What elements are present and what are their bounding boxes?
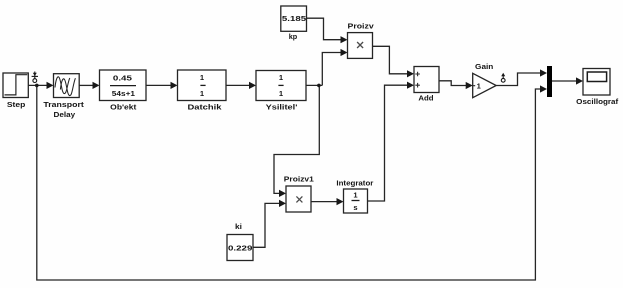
svg-text:Proizv: Proizv bbox=[348, 22, 375, 31]
arrowhead into Mux in2 bbox=[540, 85, 547, 92]
wire Add to Gain bbox=[439, 81, 468, 86]
block kp constant 5.185 bbox=[281, 6, 307, 41]
block Add sum bbox=[414, 67, 439, 103]
arrowhead into Ob'ekt bbox=[93, 82, 100, 89]
svg-text:5.185: 5.185 bbox=[282, 14, 307, 23]
block Proizv multiply bbox=[348, 22, 375, 59]
svg-text:Step: Step bbox=[7, 100, 26, 109]
svg-text:kp: kp bbox=[289, 32, 298, 41]
wire Gain to Mux in1 bbox=[496, 73, 542, 86]
arrowhead into Integrator bbox=[337, 198, 344, 205]
arrowhead into Proizv in2 bbox=[341, 49, 348, 56]
block Step bbox=[3, 73, 28, 109]
block Transport Delay bbox=[43, 74, 84, 119]
wire Ob'ekt to Datchik bbox=[146, 84, 172, 86]
block Datchik transfer function 1/1 bbox=[178, 70, 227, 111]
block Ysilitel' transfer function 1/1 bbox=[256, 71, 306, 112]
svg-text:Integrator: Integrator bbox=[336, 178, 373, 187]
arrowhead into Transport Delay bbox=[47, 82, 54, 89]
svg-text:s: s bbox=[353, 203, 357, 212]
block Ob'ekt transfer function 0.45/(54s+1) bbox=[100, 70, 147, 111]
wire ki to Proizv1 in2 bbox=[253, 203, 281, 247]
arrowhead into Proizv1 in1 bbox=[279, 190, 286, 197]
svg-text:Ysilitel': Ysilitel' bbox=[266, 102, 298, 111]
arrowhead into Proizv1 in2 bbox=[279, 200, 286, 207]
svg-text:Add: Add bbox=[418, 94, 434, 103]
test point symbol after Gain bbox=[501, 73, 505, 82]
test point symbol above Step junction bbox=[32, 72, 38, 83]
wire Proizv to Add in1 bbox=[373, 46, 409, 74]
svg-text:0.229: 0.229 bbox=[228, 243, 252, 252]
arrowhead into Mux in1 bbox=[540, 69, 547, 76]
svg-text:Oscillograf: Oscillograf bbox=[576, 97, 618, 106]
arrowhead into Add in1 bbox=[407, 70, 414, 77]
block ki constant 0.229 bbox=[227, 222, 253, 261]
block Proizv1 multiply bbox=[284, 175, 315, 213]
wire Mux to Oscillograf bbox=[552, 80, 578, 82]
block Mux bbox=[547, 66, 552, 97]
svg-text:Proizv1: Proizv1 bbox=[284, 175, 315, 184]
svg-text:ki: ki bbox=[235, 222, 242, 231]
arrowhead into Gain bbox=[466, 82, 473, 89]
wire Integrator to Add in2 bbox=[368, 85, 410, 201]
arrowhead into Proizv in1 bbox=[341, 36, 348, 43]
wire kp to Proizv in1 bbox=[307, 18, 343, 40]
svg-text:Gain: Gain bbox=[475, 62, 494, 71]
block Integrator 1/s bbox=[336, 178, 373, 213]
block Oscillograf scope bbox=[576, 69, 618, 106]
wire Step output bbox=[28, 84, 48, 86]
junction dot after Ysilitel' bbox=[317, 84, 321, 88]
wire Datchik to Ysilitel' bbox=[226, 84, 251, 86]
block Gain triangle value 1 bbox=[473, 62, 497, 98]
arrowhead into Add in2 bbox=[407, 82, 414, 89]
svg-text:0.45: 0.45 bbox=[113, 74, 133, 83]
wire node down to Proizv1 in1 bbox=[274, 85, 319, 193]
svg-text:Ob'ekt: Ob'ekt bbox=[110, 102, 137, 111]
arrowhead into Ysilitel' bbox=[249, 82, 256, 89]
svg-text:Delay: Delay bbox=[54, 110, 76, 119]
svg-text:54s+1: 54s+1 bbox=[112, 89, 136, 98]
junction dot after Step bbox=[35, 84, 39, 88]
wire node up to Proizv in2 bbox=[322, 53, 342, 86]
wire Step branch to bottom feedback into Mux in2 bbox=[37, 85, 542, 280]
wire Transport Delay to Ob'ekt bbox=[79, 84, 94, 86]
arrowhead into Oscillograf bbox=[576, 77, 583, 84]
svg-text:Transport: Transport bbox=[43, 100, 84, 109]
svg-text:Datchik: Datchik bbox=[188, 102, 223, 111]
wire Proizv1 to Integrator bbox=[311, 201, 339, 203]
wire Ysilitel' output to node bbox=[306, 84, 322, 86]
arrowhead into Datchik bbox=[171, 82, 178, 89]
